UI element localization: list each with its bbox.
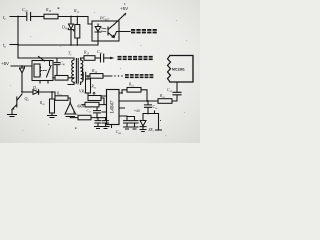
phototransistor inside optocoupler bbox=[108, 25, 114, 38]
relay dashed link bbox=[41, 70, 47, 72]
resonator B1 400kHz bbox=[65, 103, 76, 117]
resistor R15 bbox=[87, 76, 89, 79]
annotation: to main unit demodulator (Chinese) bbox=[125, 74, 153, 78]
IC bottom pin bbox=[111, 125, 113, 128]
relay coil bbox=[34, 64, 40, 77]
node A junction bbox=[17, 16, 19, 18]
capacitor C21 electrolytic bbox=[156, 114, 162, 131]
bottom caps under IC: C17 bbox=[95, 118, 101, 126]
capacitor C13 bbox=[94, 107, 101, 118]
svg-text:400S: 400S bbox=[77, 105, 84, 109]
resistor R17 bbox=[54, 92, 56, 96]
ground bbox=[102, 127, 109, 129]
relay arm above box bbox=[39, 57, 45, 62]
wire y92 bbox=[22, 91, 33, 93]
wire ta tick bbox=[10, 44, 18, 46]
capacitor C14 bbox=[173, 83, 181, 95]
capacitor C18 bbox=[103, 118, 109, 126]
resistor R12 bbox=[55, 76, 68, 81]
ground bbox=[131, 127, 138, 129]
resistor R20 bbox=[158, 99, 172, 104]
svg-text:+4V: +4V bbox=[134, 109, 141, 113]
LED inside optocoupler bbox=[95, 24, 101, 41]
annotation: to DC motor (Chinese) bbox=[131, 29, 157, 33]
relay K1 box bbox=[32, 61, 53, 81]
transformer primary winding bbox=[68, 58, 74, 85]
optocoupler PC817 bbox=[92, 21, 119, 41]
wire mid bus y45 bbox=[18, 44, 98, 46]
svg-text:ta: ta bbox=[3, 44, 6, 49]
wire LED cathode drop bbox=[97, 41, 99, 45]
wire from resonator bbox=[70, 117, 78, 118]
svg-text:+5V: +5V bbox=[120, 6, 128, 11]
capacitor C19 bbox=[124, 117, 131, 127]
left rail to transistor bbox=[21, 73, 23, 92]
secondary tap wire bbox=[81, 68, 83, 76]
wire relay feed bbox=[11, 65, 32, 67]
resistor R16 bbox=[51, 92, 53, 99]
capacitor C20 bbox=[127, 117, 138, 127]
secondary top wire bbox=[81, 57, 84, 59]
wire bottom-right rail bbox=[143, 113, 159, 115]
ground for R16 bbox=[48, 113, 57, 118]
diode VD2 bbox=[33, 90, 39, 95]
svg-text:+5V: +5V bbox=[1, 61, 9, 66]
wire with arrow bbox=[104, 57, 110, 59]
ground for Q1 bbox=[8, 115, 17, 117]
light arrows bbox=[102, 28, 107, 32]
resistor R10 bbox=[44, 14, 58, 19]
svg-text:L4847: L4847 bbox=[111, 100, 116, 114]
zener diode DW1 bbox=[70, 17, 72, 25]
IC right pins bbox=[119, 93, 158, 116]
IF unit U2 MC1361 (torn box) bbox=[170, 56, 193, 83]
ground bbox=[124, 127, 131, 129]
wire bbox=[31, 16, 44, 18]
resistor R13 bbox=[84, 56, 95, 61]
capacitor CW bbox=[54, 58, 59, 76]
wire top bus bbox=[10, 16, 26, 18]
annotation: to transmitter modulator (Chinese) bbox=[118, 56, 153, 60]
IC left pins bbox=[102, 96, 107, 112]
ground bbox=[95, 127, 102, 129]
wire vertical left rail bbox=[17, 17, 19, 59]
resistor R19 bbox=[122, 90, 127, 93]
transformer core bbox=[76, 59, 78, 84]
zener ZE1 bbox=[140, 114, 146, 130]
svg-text:MC1361: MC1361 bbox=[172, 68, 185, 72]
relay bottom pin bbox=[40, 81, 48, 84]
relay contact bbox=[47, 61, 52, 78]
wire bbox=[58, 16, 88, 18]
zener diode DW2 bbox=[20, 66, 25, 92]
scan speckles bbox=[58, 4, 162, 129]
transistor Q1 bbox=[12, 94, 22, 114]
capacitor C16 bbox=[145, 101, 152, 114]
capacitor C10 bbox=[27, 13, 31, 21]
resistor R14 bbox=[90, 74, 103, 79]
wire y58 bbox=[18, 57, 74, 59]
transformer secondary winding bbox=[81, 58, 83, 85]
capacitor C12 bbox=[83, 72, 86, 79]
capacitor C11 bbox=[101, 54, 104, 62]
IC U1 L4847 bbox=[107, 90, 120, 125]
collector wire to +5V bbox=[114, 14, 126, 25]
relay right pin bbox=[53, 77, 55, 79]
wire to optocoupler bbox=[88, 17, 92, 25]
wire bbox=[95, 57, 100, 59]
resistor R18 bbox=[78, 115, 91, 120]
emitter output wire bbox=[114, 32, 130, 38]
resistor R21 bbox=[85, 102, 99, 107]
